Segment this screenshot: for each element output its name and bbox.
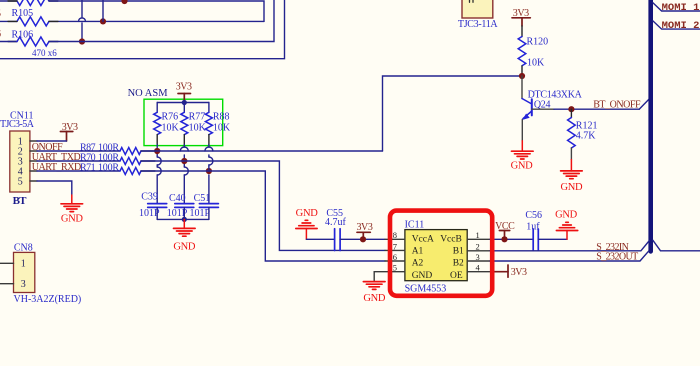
svg-text:MOMI_1: MOMI_1: [662, 2, 700, 14]
svg-text:470 x6: 470 x6: [32, 48, 57, 58]
pin numbers: [393, 230, 481, 273]
resistor R121 4.7K: [568, 109, 576, 159]
wire R88 hop over TXD row: [209, 157, 213, 204]
svg-text:TJC3-5A: TJC3-5A: [0, 119, 35, 130]
junction dot R88/RXD: [206, 168, 212, 174]
junction dot node R105/vertical: [100, 18, 106, 24]
svg-text:BT_ONOFF: BT_ONOFF: [593, 99, 641, 110]
pin segments R105: [8, 20, 58, 22]
pin 3 stub: [467, 260, 490, 262]
pin 2 stub: [467, 250, 490, 252]
svg-text:R77: R77: [189, 111, 206, 122]
wire S_232OUT (pin3 to bus): [490, 251, 649, 261]
pin 1 stub: [467, 238, 490, 240]
connector TJC3-11A (cut at top): [462, 0, 493, 18]
green no-assembly box: [144, 99, 223, 145]
svg-text:101P: 101P: [189, 208, 210, 219]
pin 5 stub to ground: [374, 272, 405, 281]
svg-text:GND: GND: [560, 182, 583, 193]
junction dot R76/ONOFF: [154, 148, 160, 154]
svg-text:R105: R105: [12, 8, 34, 19]
resistor R77 10K: [181, 103, 188, 148]
svg-text:R88: R88: [213, 111, 230, 122]
svg-text:GND: GND: [412, 271, 433, 281]
svg-text:R71: R71: [80, 163, 96, 174]
svg-text:NO ASM: NO ASM: [128, 88, 169, 99]
svg-text:C40: C40: [169, 193, 186, 204]
wire R77 down with hop over RXD row: [184, 161, 188, 204]
junction dot 3V3/pin8: [360, 236, 366, 242]
wire ONOFF row: [141, 150, 383, 152]
svg-text:GND: GND: [61, 214, 84, 225]
svg-text:R120: R120: [527, 37, 549, 48]
wire pin1 to 3V3: [37, 140, 67, 142]
junction dot base/R121: [568, 106, 574, 112]
wire ground rail under caps: [157, 218, 209, 220]
pin names: [412, 235, 464, 281]
svg-text:B2: B2: [453, 258, 464, 268]
resistor R88 10K: [205, 103, 212, 148]
svg-text:C39: C39: [141, 191, 158, 202]
svg-text:GND: GND: [173, 242, 196, 253]
wire MOMI_2 bus entry: [653, 21, 700, 29]
pin 6 stub: [385, 260, 405, 262]
bus vertical: [648, 0, 653, 251]
svg-text:VccA: VccA: [412, 235, 434, 245]
svg-text:A2: A2: [412, 258, 424, 268]
resistor R106: [0, 37, 49, 46]
svg-text:4.7uf: 4.7uf: [325, 217, 347, 228]
wire ONOFF riser to collector node: [383, 76, 523, 151]
svg-text:10K: 10K: [162, 122, 180, 133]
svg-text:4.7K: 4.7K: [576, 131, 597, 142]
wire R88 segment between dots: [208, 167, 210, 171]
wire S_232IN (pin2 to bus): [490, 241, 649, 251]
svg-text:A1: A1: [412, 247, 424, 257]
resistor R104 (cut at top edge): [0, 0, 49, 6]
junction dot: [121, 0, 127, 4]
pin 4 stub: [467, 271, 494, 273]
svg-text:VH-3A2Z(RED): VH-3A2Z(RED): [14, 294, 82, 305]
svg-text:10K: 10K: [189, 122, 207, 133]
junction dot collector node: [519, 73, 525, 79]
pin segment R87: [141, 150, 155, 152]
svg-text:3V3: 3V3: [511, 267, 527, 278]
wire R106 row: [49, 0, 274, 42]
svg-text:BT: BT: [13, 195, 28, 207]
wire vertical x=82 (hops R105 row): [81, 0, 83, 42]
svg-text:100R: 100R: [98, 163, 119, 174]
pin segments R104: [8, 0, 58, 2]
svg-text:10K: 10K: [527, 58, 545, 69]
pin segments R106: [8, 41, 58, 43]
node rail junction dot: [182, 217, 187, 222]
ground at Q24 emitter: [512, 141, 534, 159]
pin 7 stub: [385, 249, 405, 251]
svg-text:MOMI_2: MOMI_2: [662, 20, 700, 32]
svg-text:GND: GND: [363, 293, 386, 304]
power 3V3 at pin4 (rotated): [494, 265, 508, 277]
wire right exit from bus: [653, 240, 700, 251]
svg-text:2: 2: [476, 241, 480, 251]
svg-text:B1: B1: [453, 247, 464, 257]
svg-text:10K: 10K: [213, 122, 231, 133]
wire vertical x=103: [102, 0, 104, 21]
ground at IC pin5: [363, 282, 385, 290]
resistor R76 10K: [154, 103, 161, 152]
wire R105 row with hop at x=82: [49, 18, 264, 21]
svg-text:1: 1: [21, 258, 26, 269]
svg-text:3: 3: [21, 279, 26, 290]
wire bottom return row: [0, 0, 285, 59]
svg-text:3V3: 3V3: [176, 81, 192, 92]
ground at R121: [561, 160, 583, 179]
wire TXD row to IC pin7: [141, 161, 385, 250]
svg-text:VccB: VccB: [440, 235, 462, 245]
svg-text:TJC3-11A: TJC3-11A: [458, 19, 499, 30]
wire top rail of pull-up resistors: [157, 102, 209, 104]
ground at BT pin5: [61, 195, 83, 212]
pin segment R70: [141, 160, 155, 162]
svg-text:8: 8: [393, 230, 397, 240]
node 3V3 junction dot: [182, 100, 187, 105]
wire R77 hop over ONOFF row: [180, 147, 188, 151]
junction dot on R106 row: [79, 38, 85, 44]
svg-text:C51: C51: [194, 193, 211, 204]
wire pin5 to ground: [37, 181, 72, 195]
svg-text:5: 5: [18, 176, 23, 187]
svg-text:GND: GND: [296, 208, 319, 219]
svg-text:5: 5: [0, 9, 1, 20]
wire R88 hop over ONOFF row: [205, 147, 213, 151]
junction dot VCC: [501, 236, 507, 242]
svg-text:R106: R106: [12, 30, 34, 41]
resistor R120 10K: [518, 26, 526, 76]
junction dot R77/TXD: [181, 158, 187, 164]
svg-text:C56: C56: [525, 210, 542, 221]
svg-text:1: 1: [476, 230, 480, 240]
ground under caps: [174, 219, 196, 236]
wire Q24 base to BT_ONOFF: [532, 108, 554, 110]
svg-text:GND: GND: [511, 160, 534, 171]
wire RXD row to IC pin6: [141, 171, 385, 261]
resistor R105: [0, 17, 49, 26]
wire top row: [49, 1, 264, 21]
svg-text:6: 6: [0, 29, 1, 40]
pin segment R71: [141, 170, 155, 172]
svg-text:R76: R76: [162, 111, 179, 122]
svg-text:S_232OUT: S_232OUT: [596, 251, 638, 262]
svg-text:OE: OE: [450, 271, 463, 281]
wire MOMI_1 bus entry: [653, 3, 700, 11]
svg-text:SGM4553: SGM4553: [405, 284, 447, 295]
wire R76 down with hops over TXD,RXD rows: [157, 151, 161, 204]
svg-text:GND: GND: [555, 210, 578, 221]
IC11 highlight box: [390, 211, 492, 296]
pin 8 stub: [385, 238, 405, 240]
